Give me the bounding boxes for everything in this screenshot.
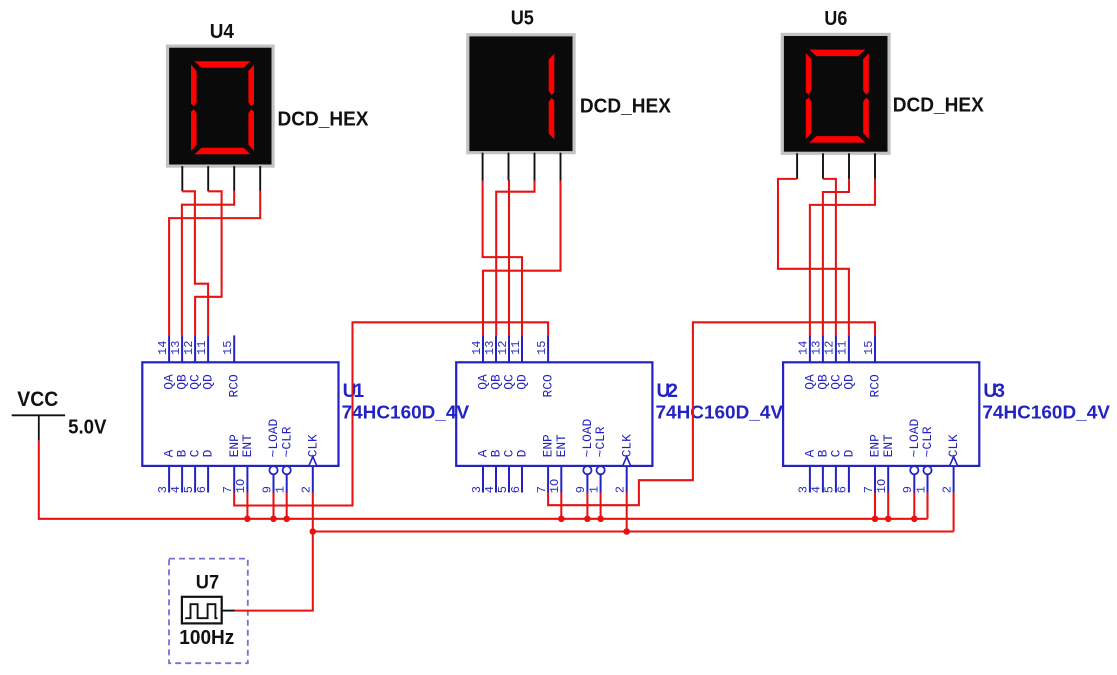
svg-text:12: 12 <box>496 341 510 355</box>
svg-text:7: 7 <box>862 486 876 493</box>
junction VCC bus <box>872 516 879 523</box>
svg-text:ENT: ENT <box>881 434 896 457</box>
svg-text:7: 7 <box>221 486 235 493</box>
svg-text:15: 15 <box>221 341 235 355</box>
junction CLK bus at U2 <box>623 528 630 535</box>
pin 1 (~CLR) of U3 <box>923 466 931 474</box>
svg-text:11: 11 <box>195 341 209 355</box>
svg-text:RCO: RCO <box>867 374 882 397</box>
pin 1 of U5 <box>482 153 484 181</box>
svg-text:2: 2 <box>940 486 954 493</box>
svg-text:4: 4 <box>810 486 824 493</box>
pin 7 (ENP) of U3 <box>874 466 876 493</box>
pin 11 (QD) of U3 <box>848 335 850 362</box>
svg-text:DCD_HEX: DCD_HEX <box>580 95 672 117</box>
IC U3 74HC160D_4V <box>783 335 979 493</box>
pin 6 (D) of U2 <box>521 466 523 493</box>
svg-text:1O: 1O <box>234 479 248 493</box>
pin 3 (A) of U3 <box>809 466 811 493</box>
wire pin to VCC bus <box>874 493 876 519</box>
svg-text:12: 12 <box>182 341 196 355</box>
power VCC <box>12 415 65 440</box>
svg-text:ENT: ENT <box>554 434 569 457</box>
pin 4 of U5 <box>560 153 562 181</box>
svg-text:1: 1 <box>914 486 928 493</box>
svg-text:U6: U6 <box>824 8 847 30</box>
pin 2 of U5 <box>508 153 510 181</box>
svg-text:9: 9 <box>901 486 915 493</box>
junction VCC bus <box>244 516 251 523</box>
pin 14 (QA) of U3 <box>809 335 811 362</box>
wire U7 out to U1 CLK pin2 <box>235 493 313 611</box>
svg-text:14: 14 <box>156 341 170 355</box>
svg-text:9: 9 <box>574 486 588 493</box>
pin 15 (RCO) of U1 <box>233 335 235 362</box>
svg-text:5: 5 <box>823 486 837 493</box>
pin 12 (QC) of U1 <box>194 335 196 362</box>
svg-text:CLK: CLK <box>305 434 320 457</box>
svg-text:74HC160D_4V: 74HC160D_4V <box>342 402 470 422</box>
IC U1 74HC160D_4V <box>142 335 338 493</box>
pin 12 (QC) of U2 <box>508 335 510 362</box>
pin 6 (D) of U1 <box>207 466 209 493</box>
pin 12 (QC) of U3 <box>835 335 837 362</box>
wire U6.3 to U3 QB pin13 <box>823 179 849 336</box>
wire U6.2 to U3 QC pin12 <box>823 179 836 336</box>
pin 5 (C) of U3 <box>835 466 837 493</box>
svg-text:74HC160D_4V: 74HC160D_4V <box>982 402 1110 422</box>
svg-text:1O: 1O <box>548 479 562 493</box>
svg-text:14: 14 <box>797 341 811 355</box>
pin of U7 <box>221 610 235 612</box>
svg-text:RCO: RCO <box>227 374 242 397</box>
wire U5.2 to U2 QC pin12 <box>507 181 510 336</box>
svg-text:~CLR: ~CLR <box>920 426 935 457</box>
pin 11 (QD) of U1 <box>207 335 209 362</box>
wire U5.4 to U2 QA pin14 <box>483 181 561 336</box>
pin 4 of U4 <box>259 166 261 191</box>
pin 5 (C) of U2 <box>508 466 510 493</box>
svg-text:U2: U2 <box>657 381 679 402</box>
wire U4.4 to U1 QA pin14 <box>169 191 260 336</box>
wire pin to VCC bus <box>887 493 889 519</box>
svg-text:DCD_HEX: DCD_HEX <box>893 94 985 116</box>
svg-text:RCO: RCO <box>541 374 556 397</box>
clock symbol U7 <box>182 597 222 624</box>
svg-text:2: 2 <box>300 486 314 493</box>
wire U5.1 to U2 QD pin11 <box>483 181 522 336</box>
wire U6.4 to U3 QA pin14 <box>810 179 875 336</box>
svg-text:13: 13 <box>169 341 183 355</box>
svg-text:13: 13 <box>483 341 497 355</box>
wire pin to VCC bus <box>913 493 915 519</box>
svg-text:15: 15 <box>862 341 876 355</box>
pin 1 (~CLR) of U1 <box>283 466 291 474</box>
pin 3 of U4 <box>233 166 235 191</box>
svg-text:11: 11 <box>836 341 850 355</box>
svg-text:~CLR: ~CLR <box>593 426 608 457</box>
svg-text:6: 6 <box>509 486 523 493</box>
wire pin to VCC bus <box>560 493 562 519</box>
pin 6 (D) of U3 <box>848 466 850 493</box>
pin 2 (CLK) of U2 <box>626 466 628 493</box>
pin 2 (CLK) of U1 <box>312 466 314 493</box>
svg-text:4: 4 <box>483 486 497 493</box>
wire pin to VCC bus <box>286 493 288 519</box>
pin 10 (ENT) of U1 <box>246 466 248 493</box>
svg-text:D: D <box>201 449 216 457</box>
svg-text:3: 3 <box>470 486 484 493</box>
wire U2 CLK pin2 to CLK bus <box>626 493 628 532</box>
wire U6.1 to U3 QD pin11 <box>778 179 849 336</box>
svg-text:11: 11 <box>509 341 523 355</box>
wire U5.3 to U2 QB pin13 <box>496 181 534 336</box>
wire pin to VCC bus <box>600 493 602 519</box>
pin 1 of U4 <box>181 166 183 191</box>
wire U4.1 to U1 QD pin11 <box>182 191 208 335</box>
pin 3 (A) of U1 <box>168 466 170 493</box>
wire pin to VCC bus <box>586 493 588 519</box>
svg-text:VCC: VCC <box>17 387 58 411</box>
pin 15 (RCO) of U2 <box>547 335 549 362</box>
svg-text:4: 4 <box>169 486 183 493</box>
pin 3 (A) of U2 <box>482 466 484 493</box>
clock source U7 box <box>169 559 248 664</box>
svg-text:15: 15 <box>535 341 549 355</box>
pin 14 (QA) of U2 <box>482 335 484 362</box>
svg-text:~CLR: ~CLR <box>279 426 294 457</box>
svg-text:U4: U4 <box>210 21 235 43</box>
display U5 <box>468 35 574 153</box>
pin 10 (ENT) of U3 <box>887 466 889 493</box>
svg-text:1: 1 <box>587 486 601 493</box>
wire VCC bus <box>39 441 928 519</box>
svg-text:1O: 1O <box>875 479 889 493</box>
pin 3 of U5 <box>534 153 536 181</box>
pin 3 of U6 <box>848 153 850 179</box>
svg-text:5.0V: 5.0V <box>68 417 107 439</box>
wire pin to VCC bus <box>272 493 274 519</box>
svg-text:6: 6 <box>836 486 850 493</box>
svg-text:100Hz: 100Hz <box>179 627 234 649</box>
pin 10 (ENT) of U2 <box>560 466 562 493</box>
svg-text:14: 14 <box>470 341 484 355</box>
svg-text:6: 6 <box>195 486 209 493</box>
junction VCC bus <box>558 516 565 523</box>
pin 7 (ENP) of U2 <box>547 466 549 493</box>
pin 1 (~CLR) of U2 <box>597 466 605 474</box>
pin 2 of U4 <box>207 166 209 191</box>
pin 14 (QA) of U1 <box>168 335 170 362</box>
svg-text:DCD_HEX: DCD_HEX <box>278 108 370 130</box>
pin 9 (~LOAD) of U2 <box>583 466 591 474</box>
junction VCC bus <box>584 516 591 523</box>
pin 15 (RCO) of U3 <box>874 335 876 362</box>
pin 4 of U6 <box>874 153 876 179</box>
svg-text:QD: QD <box>841 374 856 390</box>
junction VCC bus <box>911 516 918 523</box>
display U6 <box>782 34 889 153</box>
svg-text:74HC160D_4V: 74HC160D_4V <box>656 402 784 422</box>
wire U1 ENP pin7 to U2 RCO pin15 <box>234 322 548 505</box>
pin 13 (QB) of U3 <box>822 335 824 362</box>
svg-text:2: 2 <box>614 486 628 493</box>
svg-text:5: 5 <box>496 486 510 493</box>
svg-text:U7: U7 <box>196 573 219 594</box>
svg-text:13: 13 <box>810 341 824 355</box>
pin 4 (B) of U1 <box>181 466 183 493</box>
wire U2 ENP pin7 to U3 RCO pin15 <box>548 322 875 505</box>
junction VCC bus <box>885 516 892 523</box>
wire U3 CLK pin2 to CLK bus <box>953 493 955 532</box>
pin 2 of U6 <box>822 153 824 179</box>
IC U2 74HC160D_4V <box>456 335 652 493</box>
junction CLK bus at U1 <box>310 528 317 535</box>
pin 7 (ENP) of U1 <box>233 466 235 493</box>
pin 1 of U6 <box>796 153 798 179</box>
display U4 <box>168 46 274 166</box>
junction VCC bus <box>283 516 290 523</box>
wire pin to VCC bus <box>246 493 248 519</box>
svg-text:U5: U5 <box>511 7 534 29</box>
junction VCC bus <box>270 516 277 523</box>
svg-text:U1: U1 <box>343 381 365 402</box>
wire pin to VCC bus <box>926 493 928 519</box>
svg-text:QD: QD <box>201 374 216 390</box>
svg-text:12: 12 <box>823 341 837 355</box>
svg-text:7: 7 <box>535 486 549 493</box>
pin 4 (B) of U3 <box>822 466 824 493</box>
svg-text:5: 5 <box>182 486 196 493</box>
svg-text:CLK: CLK <box>946 434 961 457</box>
pin 9 (~LOAD) of U3 <box>910 466 918 474</box>
pin 2 (CLK) of U3 <box>953 466 955 493</box>
svg-text:3: 3 <box>156 486 170 493</box>
svg-text:D: D <box>842 449 857 457</box>
svg-text:ENT: ENT <box>240 434 255 457</box>
wire U4.3 to U1 QB pin13 <box>182 191 234 336</box>
pin 9 (~LOAD) of U1 <box>269 466 277 474</box>
wire CLK bus <box>313 530 954 532</box>
svg-text:3: 3 <box>797 486 811 493</box>
svg-text:1: 1 <box>274 486 288 493</box>
svg-text:CLK: CLK <box>619 434 634 457</box>
junction VCC bus <box>597 516 604 523</box>
svg-text:U3: U3 <box>983 381 1005 402</box>
wire U4.2 to U1 QC pin12 <box>195 191 222 335</box>
pin 5 (C) of U1 <box>194 466 196 493</box>
pin 13 (QB) of U1 <box>181 335 183 362</box>
svg-text:QD: QD <box>514 374 529 390</box>
pin 13 (QB) of U2 <box>495 335 497 362</box>
svg-text:9: 9 <box>260 486 274 493</box>
svg-text:D: D <box>515 449 530 457</box>
pin 4 (B) of U2 <box>495 466 497 493</box>
pin 11 (QD) of U2 <box>521 335 523 362</box>
